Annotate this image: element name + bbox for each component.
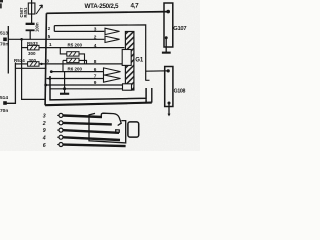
wire row 8 [39,63,124,65]
connector G107 [164,3,173,47]
riser pin2-pin3 [53,26,55,32]
R533 lead left [22,47,28,49]
node dot 514 [3,101,7,105]
resistor R5 [67,52,79,56]
wire top line to G107 [46,12,168,14]
resistor R6 leads [63,60,67,71]
pin 3 wire hook [101,113,121,125]
box outer right stub [151,88,153,103]
pin 9 wire end step [116,130,120,133]
wire row to box lower [15,67,46,69]
resistor R5 leads [60,48,67,54]
G1 window lower [123,84,132,90]
G107 pin terminal [165,37,167,53]
plug arrow row 3 [105,28,120,34]
node dot at G107 [166,10,170,14]
wire row 5 [8,38,104,40]
wire row 3 [54,30,104,32]
node dot branch [20,38,23,41]
G108 pin terminal [168,103,170,116]
capacitor C507 plate lower [26,29,35,31]
connector G1 hatched strip [125,32,133,91]
ground symbol [64,72,66,94]
box outer left and bottom [45,13,46,105]
resistor R451 [28,3,35,14]
capacitor C507 lower lead [29,31,31,39]
R451 adjust arrow [36,5,42,14]
connector G108 [165,67,173,107]
plug housing outline [89,113,126,142]
capacitor C507 plate upper [26,23,35,25]
left bus wire [7,26,9,74]
resistor R534 [28,62,39,66]
resistor R6 [67,58,79,62]
resistor R534 lead [15,63,27,65]
G1 window upper [122,50,131,66]
node dot 513 [3,38,7,42]
wire row 9 [45,84,126,86]
plug latch [128,122,139,137]
plug arrow row 7 [104,75,121,82]
wire to G108 [146,70,169,72]
box inner bottom [50,76,146,103]
wire row pin2 top [54,25,145,81]
resistor R533 [28,45,39,50]
wire row 7 [47,78,105,80]
plug arrow row 6 [104,68,121,75]
wire row lower [50,88,124,90]
wire row 6 [51,71,104,73]
corner scan mark [0,0,3,2]
wire 514 riser [5,63,15,104]
resistor R533 branch [22,39,46,99]
node dot in G108 [167,69,170,72]
wire row 1 [39,47,124,49]
node dot R534 out [40,63,42,65]
plug arrow row 5 [105,36,120,42]
resistor R451 lead [31,0,33,23]
